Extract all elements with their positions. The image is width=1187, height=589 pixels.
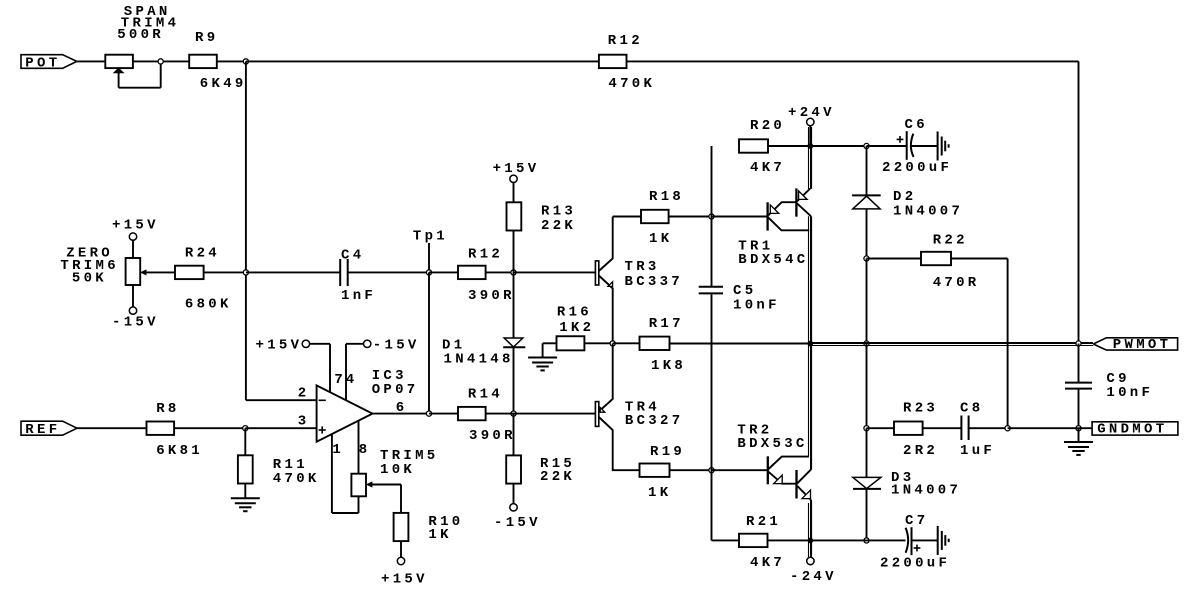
label R8: [156, 401, 179, 417]
junction -24V rail / D3 column: [864, 538, 869, 543]
resistor R15: [506, 455, 521, 483]
resistor R12 (470K): [599, 55, 627, 68]
svg-text:470K: 470K: [273, 471, 320, 487]
wire top rail to R12: [246, 60, 599, 62]
svg-text:R19: R19: [650, 444, 685, 460]
transistor TR2 output emitter: [797, 486, 811, 500]
label TRIM4 SPAN: [124, 4, 171, 20]
label TRIM4 name: [121, 16, 180, 32]
label TR4 type BC327: [625, 413, 684, 429]
wire ground to R16: [543, 342, 557, 344]
resistor R22: [921, 252, 951, 265]
power -15V terminal (R15 bottom): [494, 484, 541, 531]
wire TR2 base: [712, 469, 767, 471]
junction R22 / D2 node: [864, 256, 869, 261]
wire D3 to -24V rail: [866, 489, 868, 541]
resistor R9: [189, 55, 217, 68]
wire R17 to power bus: [670, 343, 812, 345]
label R23 value 2R2: [903, 443, 938, 459]
svg-text:C4: C4: [341, 247, 364, 263]
wire R18 to drive node: [669, 216, 712, 218]
svg-text:390R: 390R: [468, 288, 515, 304]
resistor R21: [739, 534, 768, 547]
svg-text:4: 4: [346, 372, 358, 388]
label R19: [650, 444, 685, 460]
junction node F (TR3 E / TR4 E / R16 / R17): [610, 341, 615, 346]
label TR3 type BC337: [625, 274, 684, 290]
svg-text:R20: R20: [750, 118, 785, 134]
label TRIM4 value 500R: [117, 27, 164, 43]
wire -24V rail to C7: [811, 539, 906, 541]
junction PWMOT / power bus: [807, 341, 813, 347]
resistor R16: [557, 336, 585, 350]
svg-text:GNDMOT: GNDMOT: [1097, 421, 1167, 437]
power +24V terminal: [788, 105, 835, 146]
label R15: [540, 456, 575, 472]
wire power bus lower segment: [809, 500, 812, 557]
transistor TR3 emitter: [599, 276, 613, 344]
wire R21 to power bus: [768, 539, 811, 541]
label OP07: [372, 382, 419, 398]
wire Tp1 node to R12b: [429, 271, 458, 273]
svg-text:+15V: +15V: [112, 217, 159, 233]
svg-text:R12: R12: [608, 33, 643, 49]
transistor TR2 output bar: [795, 470, 797, 499]
wire node C to D1: [513, 272, 515, 338]
power -15V terminal (op-amp pin 4): [346, 337, 420, 353]
svg-text:22K: 22K: [540, 469, 575, 485]
svg-text:390R: 390R: [469, 428, 516, 444]
transistor TR1 driver collector: [768, 218, 809, 231]
resistor R18: [641, 210, 669, 223]
svg-text:-15V: -15V: [112, 315, 159, 331]
svg-text:Tp1: Tp1: [413, 228, 448, 244]
resistor R10: [394, 513, 409, 541]
junction Tp1 / C4 node: [426, 270, 431, 275]
svg-text:R9: R9: [195, 30, 218, 46]
svg-text:R17: R17: [649, 316, 684, 332]
label C9 value 10nF: [1106, 385, 1153, 401]
wire C5 to lower drive node: [711, 294, 713, 470]
wire GNDMOT rail: [1008, 427, 1093, 429]
capacitor C9: [1065, 383, 1092, 389]
svg-text:PWMOT: PWMOT: [1113, 337, 1172, 353]
transistor TR1 output emitter: [797, 189, 810, 202]
svg-text:470R: 470R: [933, 275, 980, 291]
wire D1 to node D: [513, 347, 515, 413]
label pin 3: [298, 413, 310, 429]
svg-text:4K7: 4K7: [750, 160, 785, 176]
svg-text:R8: R8: [156, 401, 179, 417]
diode D2 (1N4007): [852, 195, 881, 209]
label R17: [649, 316, 684, 332]
wire right edge to C9: [1078, 344, 1080, 383]
capacitor C7 curved plate: [906, 528, 909, 553]
junction +24V rail / power bus: [807, 143, 813, 149]
resistor R14: [458, 407, 486, 420]
junction C8 / R22 / GNDMOT rail: [1005, 426, 1010, 431]
label R12 mid: [468, 247, 503, 263]
label C8 value 1uF: [960, 443, 995, 459]
label TRIM6 value 50K: [72, 270, 107, 286]
junction GNDMOT / right edge: [1076, 426, 1081, 431]
wire node C to TR3 base: [514, 271, 596, 273]
wire R23 to C8: [923, 427, 962, 429]
label R13: [541, 203, 576, 219]
wire pin 1 loop: [332, 434, 359, 513]
trimmer TRIM4: [105, 55, 133, 88]
wire C4 to Tp1 node: [348, 271, 429, 273]
svg-text:+15V: +15V: [381, 572, 428, 588]
ground sideways at C6: [938, 132, 949, 161]
label pin 4: [346, 372, 358, 388]
wire C6 node to C6: [867, 145, 907, 147]
svg-text:1K8: 1K8: [651, 358, 686, 374]
svg-text:1K: 1K: [428, 527, 451, 543]
label TR2: [737, 423, 772, 439]
ground below R11: [231, 484, 260, 512]
label R10 value 1K: [428, 527, 451, 543]
svg-text:1N4007: 1N4007: [891, 482, 961, 498]
wire node E to pin 3: [245, 427, 316, 429]
svg-text:R18: R18: [649, 189, 684, 205]
resistor R20: [739, 139, 768, 152]
label D3: [891, 470, 914, 486]
wire D2 to R22 node: [866, 209, 868, 259]
svg-text:50K: 50K: [72, 270, 107, 286]
label R21 value 4K7: [750, 555, 785, 571]
wire pin 4 drop: [345, 344, 347, 401]
label IC3: [372, 368, 407, 384]
wire TRIM4 wiper loop: [119, 61, 161, 87]
wire power bus middle segment: [809, 216, 812, 470]
label R18: [649, 189, 684, 205]
svg-text:POT: POT: [25, 55, 60, 71]
svg-text:BC337: BC337: [625, 274, 684, 290]
svg-text:C8: C8: [960, 400, 983, 416]
label pin 6: [396, 400, 408, 416]
capacitor C6 plus plate: [906, 131, 908, 160]
svg-text:OP07: OP07: [372, 382, 419, 398]
wire R19 to drive node lower: [670, 469, 712, 471]
label R14 value 390R: [469, 428, 516, 444]
wire node D to R15: [513, 414, 515, 456]
wire C7 to ground: [912, 539, 938, 541]
svg-text:-15V: -15V: [373, 337, 420, 353]
svg-text:6K81: 6K81: [156, 443, 203, 459]
junction -24V rail / power bus: [807, 538, 813, 544]
transistor TR2 driver bar: [767, 456, 769, 484]
ground at R16: [528, 343, 557, 370]
wire pin 7 drop: [329, 344, 331, 393]
label R16 value 1K2: [559, 320, 594, 336]
ground sideways at C7: [938, 526, 949, 555]
node PWMOT output label: [1093, 337, 1177, 353]
label R21: [746, 514, 781, 530]
svg-text:-15V: -15V: [494, 515, 541, 531]
svg-text:10K: 10K: [380, 462, 415, 478]
label C4: [341, 247, 364, 263]
svg-text:22K: 22K: [541, 218, 576, 234]
svg-text:C7: C7: [905, 513, 928, 529]
svg-text:-24V: -24V: [790, 569, 837, 585]
svg-text:BDX53C: BDX53C: [737, 436, 807, 452]
svg-text:2200uF: 2200uF: [882, 160, 952, 176]
capacitor C7 plus plate: [911, 527, 913, 555]
resistor R23: [894, 422, 923, 435]
resistor R24: [175, 266, 204, 279]
label R15 value 22K: [540, 469, 575, 485]
transistor TR1 output bar: [795, 188, 797, 216]
node POT input label: [21, 55, 77, 72]
label pin 7: [334, 372, 346, 388]
capacitor C7 plus sign: [914, 545, 921, 552]
label TRIM6: [60, 258, 119, 274]
label R22 value 470R: [933, 275, 980, 291]
svg-text:2200uF: 2200uF: [880, 555, 950, 571]
node GNDMOT label: [1092, 421, 1178, 437]
label TR4: [625, 399, 660, 415]
wire R22 to GNDMOT rail: [951, 259, 1008, 429]
svg-text:BC327: BC327: [625, 413, 684, 429]
wire R14 to node D: [486, 413, 514, 415]
wire node E to R11: [244, 428, 246, 455]
svg-text:TR3: TR3: [625, 259, 660, 275]
svg-text:R23: R23: [903, 400, 938, 416]
capacitor C8: [961, 416, 968, 441]
resistor R13: [507, 202, 522, 230]
junction PWMOT / D2 column: [864, 341, 869, 346]
svg-text:R24: R24: [185, 246, 220, 262]
wire R20 to +24V bus: [768, 145, 811, 147]
label TR1 type BDX54C: [738, 252, 808, 268]
wire C8 to junction: [969, 427, 1008, 429]
svg-text:+15V: +15V: [256, 337, 303, 353]
label C9: [1106, 371, 1129, 387]
capacitor C6 curved plate: [911, 134, 914, 157]
node REF input label: [21, 421, 77, 438]
wire node D to TR4 base: [514, 413, 596, 415]
label R10: [428, 514, 463, 530]
wire PWMOT column down: [866, 344, 868, 429]
label R23: [903, 400, 938, 416]
label R12 top: [608, 33, 643, 49]
label D1 value 1N4148: [444, 351, 514, 367]
wire left bus down: [246, 61, 317, 400]
wire TRIM6 wiper to R24: [141, 270, 175, 275]
label C4 value 1nF: [341, 288, 376, 304]
transistor TR1 driver bar: [766, 202, 768, 230]
capacitor C6 plus sign: [897, 136, 904, 143]
wire node B to C4: [246, 271, 340, 273]
svg-text:1K: 1K: [648, 485, 671, 501]
wire TR3 collector to R18: [613, 216, 641, 218]
wire PWMOT bold line: [810, 343, 1093, 346]
junction PWMOT / R23 / D3 node: [864, 426, 869, 431]
wire REF to R8: [77, 427, 147, 429]
svg-text:10nF: 10nF: [733, 298, 780, 314]
transistor TR3 BC337 bar: [595, 261, 598, 285]
label pin 1: [332, 442, 344, 458]
wire power bus upper segment: [809, 127, 812, 189]
label pin 8: [359, 442, 371, 458]
svg-text:BDX54C: BDX54C: [738, 252, 808, 268]
svg-text:1K2: 1K2: [559, 320, 594, 336]
svg-text:1N4148: 1N4148: [444, 351, 514, 367]
label C5 value 10nF: [733, 298, 780, 314]
resistor R19: [640, 464, 670, 477]
label TRIM5: [380, 448, 439, 464]
trimmer TRIM5: [351, 474, 366, 513]
label TR3: [625, 259, 660, 275]
resistor R12 (390R): [458, 266, 486, 279]
svg-text:2: 2: [298, 385, 310, 401]
wire R12b to node C: [486, 271, 514, 273]
label pin 2: [298, 385, 310, 401]
svg-text:C5: C5: [733, 283, 756, 299]
svg-text:D2: D2: [893, 189, 916, 205]
junction node A (R9 / R12 / left bus): [243, 59, 248, 64]
transistor TR4 collector: [599, 417, 640, 470]
power -15V terminal (TRIM6 bottom): [112, 285, 159, 331]
transistor TR1 driver emitter: [768, 202, 795, 215]
label C6: [905, 117, 928, 133]
label R13 value 22K: [541, 218, 576, 234]
trimmer TRIM6: [126, 258, 141, 285]
label R20: [750, 118, 785, 134]
op-amp U1 IC3 OP07 triangle: [317, 385, 373, 441]
svg-text:R21: R21: [746, 514, 781, 530]
junction drive node lower (R19/TR2 base/C5): [709, 468, 714, 473]
power +15V terminal (op-amp pin 7): [256, 337, 331, 353]
label R12 value 470K: [608, 76, 655, 92]
wire TRIM5 wiper to R10: [367, 482, 401, 513]
label R20 value 4K7: [750, 160, 785, 176]
label R24: [185, 246, 220, 262]
label R9 value 6K49: [200, 76, 247, 92]
svg-text:R14: R14: [468, 386, 503, 402]
label C6 value 2200uF: [882, 160, 952, 176]
label D3 value 1N4007: [891, 482, 961, 498]
transistor TR4 emitter: [599, 344, 613, 413]
junction node E (R8 / R11 / pin 3): [243, 426, 248, 431]
svg-text:3: 3: [298, 413, 310, 429]
wire +24V rail to C6 node: [811, 145, 867, 147]
junction output / Tp1 node: [426, 411, 431, 416]
label C8: [960, 400, 983, 416]
svg-text:C6: C6: [905, 117, 928, 133]
svg-text:R16: R16: [557, 305, 592, 321]
wire R9 to node A: [217, 60, 246, 62]
junction node C (R13 / D1 / TR3 base): [511, 270, 516, 275]
svg-text:8: 8: [359, 442, 371, 458]
junction node B (left bus / C4): [243, 270, 248, 275]
label C7 value 2200uF: [880, 555, 950, 571]
svg-text:1K: 1K: [649, 231, 672, 247]
transistor TR1 output collector: [797, 204, 811, 217]
wire R22 node to R22: [867, 258, 922, 260]
svg-text:680K: 680K: [185, 297, 232, 313]
label TRIM5 value 10K: [380, 462, 415, 478]
wire D2 node down to PWMOT: [866, 259, 868, 344]
wire pin 8 drop: [358, 421, 360, 474]
svg-text:470K: 470K: [608, 76, 655, 92]
wire C6 to ground: [912, 145, 938, 147]
label C5: [733, 283, 756, 299]
label TR1: [738, 239, 773, 255]
power +15V terminal (R13 top): [493, 161, 540, 202]
power +15V terminal (TRIM6 top): [112, 217, 159, 258]
label TR2 type BDX53C: [737, 436, 807, 452]
op-amp minus sign: [319, 399, 326, 401]
svg-text:7: 7: [334, 372, 346, 388]
svg-text:6K49: 6K49: [200, 76, 247, 92]
svg-text:500R: 500R: [117, 27, 164, 43]
wire PWMOT node to R23: [867, 427, 895, 429]
label R19 value 1K: [648, 485, 671, 501]
label C7: [905, 513, 928, 529]
resistor R8: [147, 422, 175, 435]
wire R8 to node E: [174, 427, 245, 429]
label R16: [557, 305, 592, 321]
svg-text:1nF: 1nF: [341, 288, 376, 304]
junction TRIM4 wiper node: [158, 59, 163, 64]
resistor R17: [640, 337, 670, 350]
label R11 value 470K: [273, 471, 320, 487]
junction C6 / D2 node: [864, 143, 869, 148]
power -24V terminal: [790, 557, 837, 585]
wire lower drive node down: [712, 470, 740, 540]
label R8 value 6K81: [156, 443, 203, 459]
svg-text:R22: R22: [933, 233, 968, 249]
junction drive node upper (R18/R20/TR1 base/C5): [709, 214, 714, 219]
wire C9 to GNDMOT rail: [1078, 389, 1080, 428]
junction node D (R14 / D1 / R15 / TR4 base): [511, 411, 516, 416]
wire TR1 base: [712, 216, 767, 218]
svg-text:R12: R12: [468, 247, 503, 263]
wire op-amp output: [373, 413, 430, 415]
wire R12 to right edge: [627, 61, 1079, 343]
label R9: [195, 30, 218, 46]
wire R13 to node C: [513, 231, 515, 273]
transistor TR2 output collector: [797, 470, 811, 484]
label R24 value 680K: [185, 297, 232, 313]
label R18 value 1K: [649, 231, 672, 247]
junction PWMOT / right edge: [1076, 341, 1081, 346]
label R14: [468, 386, 503, 402]
capacitor C4: [340, 259, 348, 286]
diode D3 (1N4007): [853, 477, 881, 489]
label R12 value 390R: [468, 288, 515, 304]
label D2: [893, 189, 916, 205]
diode D1 (1N4148): [503, 338, 525, 347]
wire PWMOT node to D3: [866, 428, 868, 477]
wire R16 to node F: [584, 342, 612, 344]
transistor TR2 driver emitter: [769, 472, 796, 484]
wire C6 node to D2: [866, 146, 868, 195]
svg-text:REF: REF: [25, 422, 60, 438]
resistor R11: [238, 455, 253, 483]
wire output to R14: [429, 413, 458, 415]
ground at GNDMOT: [1064, 428, 1093, 455]
label R11: [273, 457, 308, 473]
wire R24 to node B: [204, 271, 246, 273]
transistor TR3 collector: [599, 217, 613, 272]
label R22: [933, 233, 968, 249]
wire POT to TRIM4: [77, 60, 106, 62]
svg-text:+15V: +15V: [493, 161, 540, 177]
op-amp plus sign: [319, 426, 326, 433]
